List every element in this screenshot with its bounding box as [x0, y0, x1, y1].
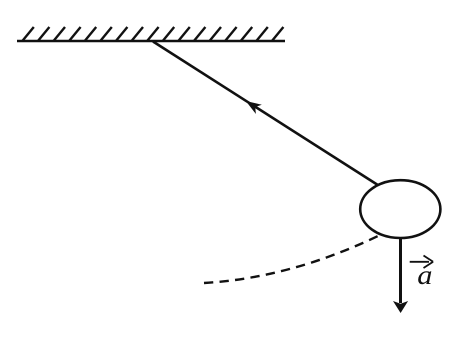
- svg-text:a: a: [417, 260, 432, 290]
- acceleration arrowhead: [393, 301, 408, 313]
- string (pendulum cord): [153, 42, 380, 187]
- ceiling line: [17, 40, 285, 43]
- arrowhead on string pointing to pivot: [246, 101, 262, 114]
- vector a label arrow: [410, 256, 433, 269]
- ball (pendulum bob): [360, 180, 440, 238]
- ceiling hatching: [22, 27, 283, 41]
- dashed arc (swing path): [204, 236, 378, 283]
- acceleration arrow shaft: [399, 237, 402, 303]
